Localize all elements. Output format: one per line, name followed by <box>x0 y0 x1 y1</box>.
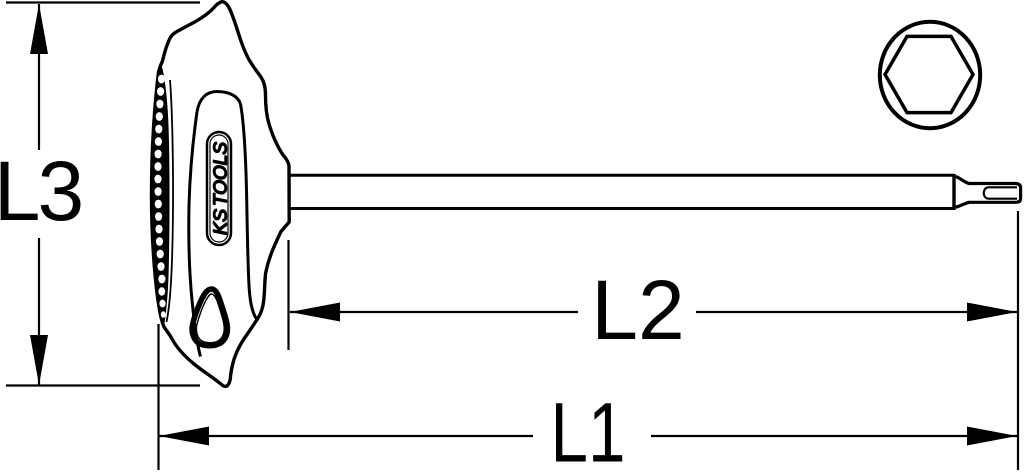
inner capsule right edge <box>241 104 258 319</box>
svg-text:L2: L2 <box>591 263 684 357</box>
shaft bottom line <box>288 207 954 210</box>
extension line L2 left <box>287 240 289 350</box>
cross-section circle <box>880 22 980 128</box>
shaft top line <box>288 174 954 177</box>
dimension line L3 vertical <box>38 4 40 385</box>
arrowhead L2 right <box>967 303 1017 322</box>
arrowhead L1 left <box>159 427 209 446</box>
logo oval outer <box>207 132 231 245</box>
dimension line L2 <box>290 311 1017 313</box>
arrowhead L3 up <box>30 4 48 54</box>
grip serration lens <box>152 64 170 327</box>
hex tip facet line lower <box>988 198 1018 200</box>
svg-text:L1: L1 <box>551 386 626 474</box>
extension line L1 left <box>157 324 159 470</box>
extension line right shared <box>1017 211 1019 470</box>
cross-section hexagon <box>885 36 973 112</box>
hanging hole teardrop inner <box>196 294 224 343</box>
inner capsule arch <box>197 92 241 113</box>
extension line bottom (L3 lower) <box>6 384 200 386</box>
grip dots <box>154 75 165 318</box>
extension line top (L3 upper) <box>6 1 200 3</box>
hex tip chamfer arc <box>984 187 988 198</box>
inner contour line right of lens <box>167 80 174 322</box>
dimension line L1 <box>159 435 1017 437</box>
arrowhead L2 left <box>290 303 340 322</box>
svg-text:TOOLS: TOOLS <box>210 141 231 206</box>
inner capsule left edge <box>189 112 201 357</box>
arrowhead L3 down <box>30 335 48 385</box>
hanging hole teardrop outer <box>192 289 227 346</box>
svg-text:L3: L3 <box>0 144 81 238</box>
logo text KS TOOLS <box>210 141 231 235</box>
hex tip facet line upper <box>988 186 1018 188</box>
arrowhead L1 right <box>967 427 1017 446</box>
logo oval inner <box>210 135 228 242</box>
svg-text:KS: KS <box>210 208 231 235</box>
shaft end step <box>952 174 955 210</box>
handle outer outline <box>152 2 290 387</box>
hex tip outline <box>956 177 1021 208</box>
